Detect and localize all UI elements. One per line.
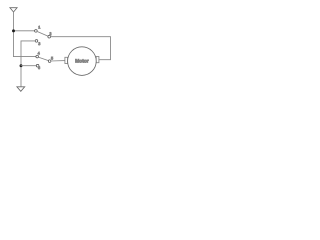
motor M1 right brush: [96, 57, 99, 63]
svg-text:Motor: Motor: [75, 58, 89, 64]
wire: row1 from bus to contact 1: [14, 30, 35, 32]
node B junction dot: [20, 64, 23, 67]
motor M1 body: [68, 47, 97, 76]
node A junction dot on bus: [12, 29, 15, 32]
svg-text:2: 2: [49, 32, 51, 36]
switch S2 contact 5: [48, 60, 51, 63]
svg-text:6: 6: [38, 66, 40, 70]
svg-text:1: 1: [38, 26, 40, 30]
wire: node B to contact 6: [21, 65, 36, 67]
switch S1 lever (pole 1 to 2): [37, 31, 48, 36]
switch S1 contact 1: [35, 30, 38, 33]
motor M1 left brush: [65, 57, 68, 63]
svg-text:5: 5: [51, 57, 53, 61]
wire: row3 from bus corner to contact 4: [14, 56, 36, 58]
terminal T1 (top supply triangle): [10, 8, 17, 12]
svg-text:4: 4: [38, 51, 40, 55]
switch S2 lever (pole 4 to 5): [38, 57, 48, 60]
switch S2 contact 6: [36, 64, 39, 67]
terminal T2 (bottom supply triangle): [17, 87, 25, 92]
switch S1 contact 2: [48, 35, 51, 38]
wire: contact 3 left then down to node B: [21, 41, 35, 87]
wire: contact 5 to motor left brush: [51, 60, 65, 62]
switch S1 contact 3: [35, 40, 38, 43]
wire: left bus from T1 down to row3 corner: [13, 12, 15, 57]
wire: contact 2 to right side, down to motor right lead: [50, 37, 110, 60]
switch S2 contact 4: [36, 55, 39, 58]
svg-text:3: 3: [38, 42, 40, 46]
